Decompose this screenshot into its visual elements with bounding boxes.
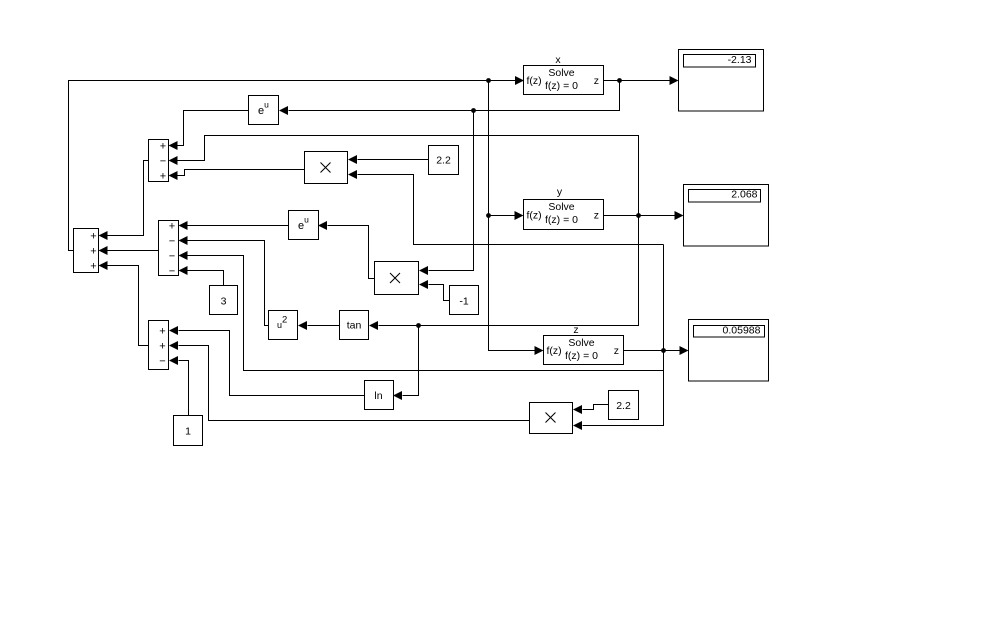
wire x signal branch from node D down to Product2 input 1 <box>429 111 474 271</box>
wire Product1 output to Sum1 input 3 <box>178 170 305 176</box>
node C junction at Solve-x output <box>617 78 622 83</box>
math block exp1 e^u <box>249 96 279 125</box>
arrowhead into Product2 input 1 <box>419 266 428 275</box>
svg-text:ln: ln <box>374 390 382 402</box>
svg-text:z: z <box>594 75 599 87</box>
math block square u^2 <box>269 311 298 340</box>
wire square output to Sum2 input 2 <box>188 241 269 326</box>
node G junction at Solve-z output <box>661 348 666 353</box>
node B junction feeding Solve-y <box>486 213 491 218</box>
svg-text:2.068: 2.068 <box>731 189 757 201</box>
svg-text:3: 3 <box>221 296 227 308</box>
arrowhead into Solve-z input <box>535 346 544 355</box>
svg-text:z: z <box>594 209 599 221</box>
math block ln <box>365 381 394 410</box>
svg-text:x: x <box>555 54 561 66</box>
algebraic constraint block Solve-y <box>524 200 604 230</box>
wire Sum1 output to Sum0 input 1 <box>108 161 149 236</box>
node F junction on tan input wire <box>416 323 421 328</box>
svg-text:−: − <box>160 155 166 167</box>
svg-text:−: − <box>169 235 175 247</box>
svg-text:−: − <box>159 355 165 367</box>
arrowhead into Sum3 input 2 <box>169 341 178 350</box>
wire ln output to Sum3 input 1 <box>179 331 365 396</box>
display block Display x <box>679 50 764 112</box>
wire Sum2 output to Sum0 input 2 <box>108 250 159 252</box>
arrowhead into Display x input <box>670 76 679 85</box>
svg-text:+: + <box>159 340 165 352</box>
wire exp1 output to Sum1 input 1 <box>178 111 249 146</box>
Product3 x symbol <box>546 413 556 423</box>
constant block 2.2a <box>429 146 459 175</box>
node A junction on x-equation wire <box>486 78 491 83</box>
wire z signal along y=370 to Sum2 input 3 <box>188 256 664 371</box>
constant block 1 <box>174 416 203 446</box>
sum block Sum2 <box>159 221 179 276</box>
arrowhead into Solve-y input <box>515 211 524 220</box>
node D junction on x signal wire <box>471 108 476 113</box>
wire Constant 1 to Sum3 input 3 <box>179 361 189 416</box>
wire Solve-z z output to Display z <box>623 350 681 352</box>
arrowhead into Product1 input 2 <box>348 170 357 179</box>
arrowhead into Sum2 input 1 <box>179 221 188 230</box>
svg-text:+: + <box>90 245 96 257</box>
wire exp2 output to Sum2 input 1 <box>188 225 289 227</box>
arrowhead into Sum0 input 3 <box>99 261 108 270</box>
math block exp2 e^u <box>289 211 319 240</box>
svg-text:+: + <box>90 260 96 272</box>
svg-text:-1: -1 <box>459 296 468 308</box>
wire Constant 2.2a to Product1 input 1 <box>358 159 429 161</box>
arrowhead into Sum2 input 2 <box>179 236 188 245</box>
wire z signal along y=244 to Product1 input 2 <box>358 175 664 245</box>
svg-text:Solve: Solve <box>568 337 594 349</box>
wire Constant -1 to Product2 input 2 <box>429 285 450 301</box>
svg-text:f(z) = 0: f(z) = 0 <box>545 80 578 92</box>
wire Constant 2.2b to Product3 input 1 <box>583 405 609 410</box>
svg-text:f(z) = 0: f(z) = 0 <box>545 214 578 226</box>
arrowhead into Product2 input 2 <box>419 280 428 289</box>
arrowhead into Sum3 input 1 <box>169 326 178 335</box>
algebraic constraint block Solve-z <box>544 336 624 365</box>
svg-text:f(z) = 0: f(z) = 0 <box>565 350 598 362</box>
arrowhead into tan input <box>369 321 378 330</box>
svg-text:−: − <box>169 250 175 262</box>
wire Sum3 output to Sum0 input 3 <box>108 266 149 346</box>
display block Display z <box>689 320 769 382</box>
arrowhead into Display z input <box>680 346 689 355</box>
wire y signal from node E down and left to tan input <box>379 216 639 326</box>
svg-text:f(z): f(z) <box>547 345 562 357</box>
display block Display y <box>684 185 769 247</box>
svg-text:2.2: 2.2 <box>616 400 631 412</box>
sum block Sum1 <box>149 140 169 182</box>
svg-text:0.05988: 0.05988 <box>723 325 761 337</box>
arrowhead into Sum1 input 1 <box>169 141 178 150</box>
svg-text:-2.13: -2.13 <box>728 54 752 66</box>
arrowhead into Solve-x input <box>515 76 524 85</box>
svg-text:z: z <box>573 324 578 336</box>
wire Product3 output to Sum3 input 2 <box>179 346 530 421</box>
arrowhead into Sum2 input 4 <box>179 266 188 275</box>
svg-text:tan: tan <box>347 320 362 332</box>
wire Product2 output to exp2 input <box>328 226 375 279</box>
svg-text:1: 1 <box>185 426 191 438</box>
svg-text:2.2: 2.2 <box>436 155 451 167</box>
product block Product2 <box>375 262 419 295</box>
svg-text:Solve: Solve <box>548 67 574 79</box>
svg-text:+: + <box>160 170 166 182</box>
algebraic constraint block Solve-x <box>524 66 604 95</box>
wire Solve-y z output to Display y <box>603 215 676 217</box>
svg-text:f(z): f(z) <box>527 75 542 87</box>
wire branch from node F down to ln input <box>403 326 419 396</box>
arrowhead into Display y input <box>675 211 684 220</box>
svg-text:+: + <box>159 325 165 337</box>
wire y signal from node E up and left to Sum1 input 2 <box>178 136 639 216</box>
svg-text:z: z <box>614 345 619 357</box>
arrowhead into Sum3 input 3 <box>169 356 178 365</box>
constant block 2.2b <box>609 391 639 420</box>
wire Sum0 output to Solve-x f(z) input <box>69 81 516 251</box>
svg-text:+: + <box>160 140 166 152</box>
arrowhead into ln input <box>393 391 402 400</box>
arrowhead into Sum0 input 1 <box>99 231 108 240</box>
sum block Sum3 <box>149 321 169 370</box>
svg-text:Solve: Solve <box>548 201 574 213</box>
arrowhead into Product3 input 1 <box>573 405 582 414</box>
node E junction at Solve-y output <box>636 213 641 218</box>
Product1 x symbol <box>321 163 331 173</box>
wire tan output to square input <box>308 325 340 327</box>
arrowhead into exp2 input <box>318 221 327 230</box>
Product2 x symbol <box>390 273 400 283</box>
arrowhead into Sum1 input 2 <box>169 156 178 165</box>
arrowhead into Sum0 input 2 <box>99 246 108 255</box>
constant block 3 <box>210 286 238 315</box>
wire Solve-x z output to Display x <box>604 80 670 82</box>
svg-text:+: + <box>169 220 175 232</box>
svg-text:+: + <box>90 230 96 242</box>
constant block -1 <box>450 286 479 315</box>
math block tan <box>340 311 369 340</box>
wire z signal vertical from node G to Product3 input 2 <box>583 245 664 426</box>
wire branch from node B to Solve-y f(z) input <box>489 215 516 217</box>
svg-text:f(z): f(z) <box>527 209 542 221</box>
arrowhead into Product3 input 2 <box>573 421 582 430</box>
wire x signal from node C down and left to exp1 input <box>289 81 620 111</box>
arrowhead into exp1 input <box>279 106 288 115</box>
svg-text:−: − <box>169 265 175 277</box>
wire Constant 3 to Sum2 input 4 <box>188 271 224 286</box>
product block Product1 <box>305 152 348 184</box>
arrowhead into Sum2 input 3 <box>179 251 188 260</box>
wire branch down from node A to Solve-z f(z) input <box>489 81 536 351</box>
arrowhead into square input <box>298 321 307 330</box>
svg-text:y: y <box>557 186 563 198</box>
arrowhead into Sum1 input 3 <box>169 171 178 180</box>
arrowhead into Product1 input 1 <box>348 155 357 164</box>
sum block Sum0 <box>74 229 99 273</box>
product block Product3 <box>530 403 573 434</box>
